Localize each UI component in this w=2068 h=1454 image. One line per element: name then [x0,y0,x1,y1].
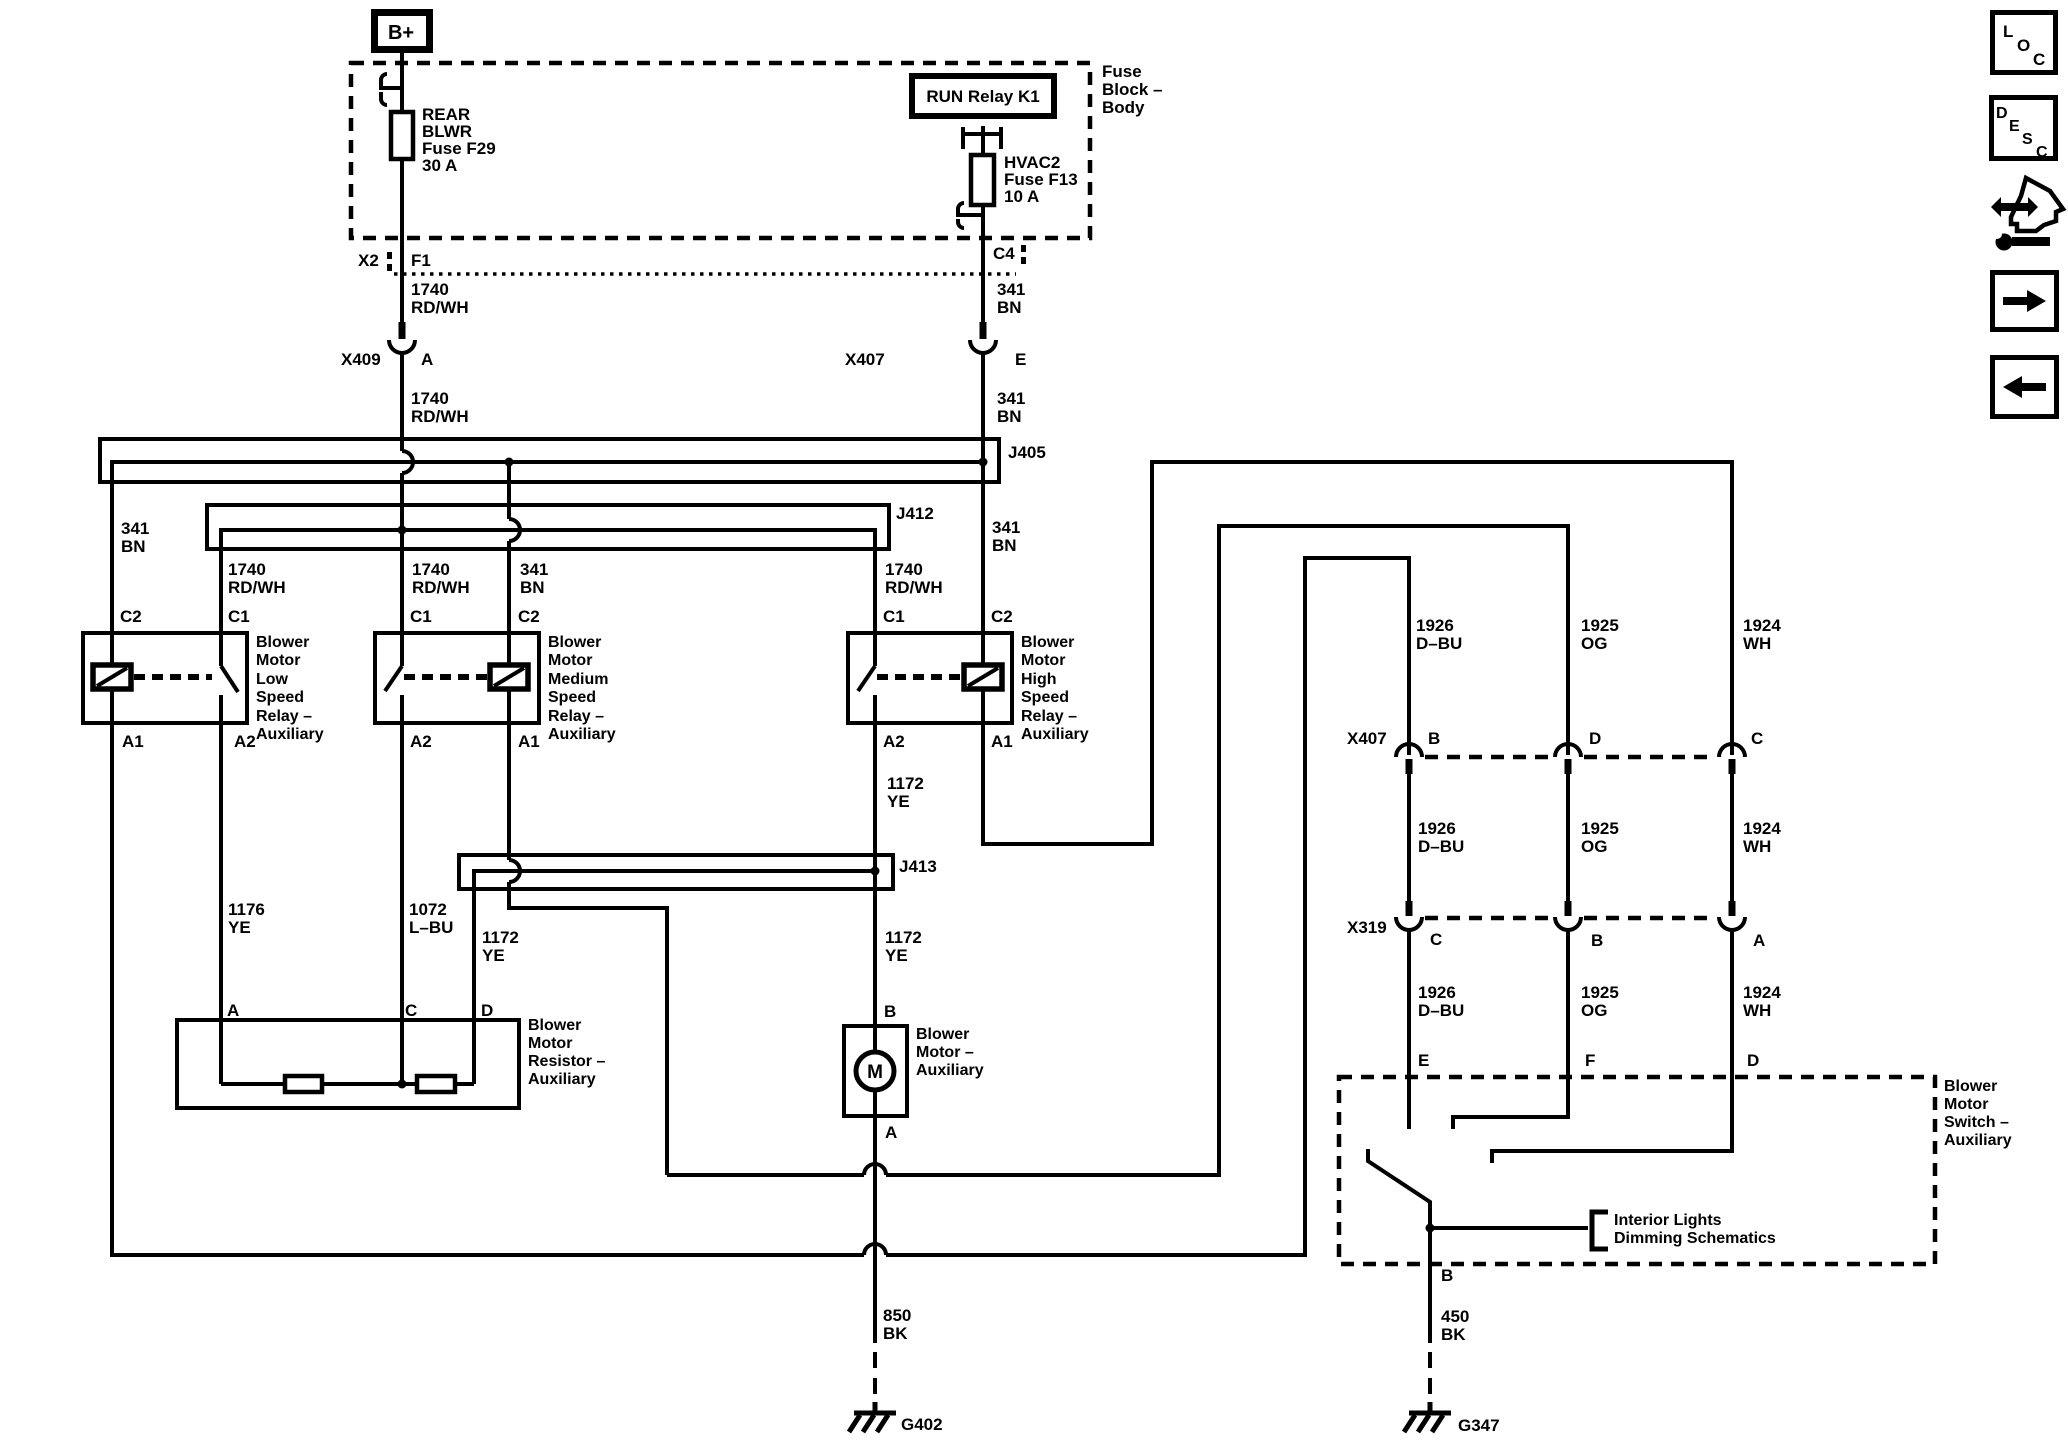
junction dot J412 at feed [398,526,407,535]
inline connector X319 C socket [1396,917,1422,930]
label 1740 RD/WH at high relay C1 [885,560,943,597]
svg-text:Blower: Blower [1944,1078,1997,1095]
ground G347 [1404,1402,1451,1432]
relay low speed contact blade [221,666,238,692]
wire high relay A1 to switch D via X407 C [983,462,1732,844]
svg-text:1924: 1924 [1743,819,1781,838]
icon LOC box [1993,13,2056,73]
relay high speed contact blade [858,666,875,691]
svg-text:A1: A1 [518,732,540,751]
svg-text:G402: G402 [901,1415,943,1434]
inline connector X319 C pin [1406,901,1413,916]
svg-text:341: 341 [997,280,1025,299]
svg-text:A1: A1 [122,732,144,751]
label 341 BN below X407 E [997,389,1025,426]
X2 separator dots [387,252,392,259]
relay medium speed coil [490,665,528,689]
svg-text:YE: YE [482,946,505,965]
label 1172 YE motor B feed [885,928,922,965]
svg-text:341: 341 [121,519,149,538]
inline connector X409 pin A [399,322,406,339]
inline connector X319 B pin [1565,901,1572,916]
X407 row dashed connector line [1425,755,1716,760]
svg-text:Blower: Blower [1021,634,1074,651]
inline connector X319 A pin [1729,901,1736,916]
svg-text:A: A [421,350,433,369]
fuse F29 body [391,112,413,159]
svg-text:B: B [1428,729,1440,748]
svg-text:WH: WH [1743,1001,1771,1020]
junction dot J413 at motor feed [871,867,880,876]
svg-text:1925: 1925 [1581,983,1619,1002]
wire B+ feed 1740 RD/WH down to X409 [400,53,404,322]
battery positive voltage B+ [375,13,430,50]
svg-text:E: E [1015,350,1026,369]
svg-text:D–BU: D–BU [1418,837,1464,856]
inline connector X407 C pin [1729,759,1736,774]
svg-text:Motor: Motor [528,1035,572,1052]
resistor element 1 [285,1076,322,1092]
svg-text:BK: BK [883,1324,908,1343]
inline connector X319 B socket [1555,917,1581,930]
wire tap to interior lights dimming [1430,1226,1588,1230]
svg-text:A: A [227,1001,239,1020]
svg-text:1072: 1072 [409,900,447,919]
svg-text:YE: YE [885,946,908,965]
labels relay high pins [883,607,1013,751]
svg-text:1740: 1740 [411,280,449,299]
svg-text:BN: BN [997,298,1022,317]
inline connector X407 C socket [1719,744,1745,757]
svg-text:J412: J412 [896,504,934,523]
label 1172 YE resistor D leg [482,928,519,965]
svg-text:Interior Lights: Interior Lights [1614,1212,1722,1229]
svg-text:1740: 1740 [412,560,450,579]
svg-text:10 A: 10 A [1004,187,1039,206]
J413 bus wire 1172 YE with leg to resistor D [474,871,875,1084]
icon arrow back box [1993,358,2057,417]
svg-text:341: 341 [520,560,548,579]
svg-text:Relay –: Relay – [256,708,312,725]
svg-text:1924: 1924 [1743,616,1781,635]
hop of 1740 wire over J405 bus [402,451,413,473]
J412 bus wire 1740 RD/WH with legs to low and high relay C1 [221,530,875,666]
svg-text:Motor: Motor [1944,1096,1988,1113]
svg-text:Relay –: Relay – [548,708,604,725]
fuse clip F29 [381,74,402,105]
svg-text:BN: BN [520,578,545,597]
fuse block - body dashed box [351,63,1090,238]
label Blower Motor Switch - Auxiliary [1944,1078,2012,1149]
svg-text:1926: 1926 [1418,983,1456,1002]
svg-text:C: C [405,1001,417,1020]
label 341 BN at medium relay C2 [520,560,548,597]
label 850 BK [883,1306,911,1343]
wire 341 BN HVAC2 fuse to X407 E [981,155,985,322]
svg-text:C: C [1751,729,1763,748]
label 341 BN above X407 E [997,280,1025,317]
labels 1926 D-BU / 1925 OG / 1924 WH between connectors [1418,819,1781,856]
junction dot at dimming tap [1426,1224,1435,1233]
splice J405 box [100,439,999,482]
svg-text:Auxiliary: Auxiliary [256,726,324,743]
svg-text:B: B [1441,1266,1453,1285]
svg-text:Auxiliary: Auxiliary [528,1071,596,1088]
svg-text:D: D [1589,729,1601,748]
labels 1926 D-BU / 1925 OG / 1924 WH below X319 [1418,983,1781,1020]
svg-text:C: C [1430,930,1442,949]
svg-text:S: S [2022,131,2033,148]
X319 row dashed connector line [1425,916,1716,921]
svg-text:Block –: Block – [1102,80,1162,99]
label Blower Motor Resistor - Auxiliary [528,1017,605,1088]
svg-text:A: A [885,1123,897,1142]
blower motor box [844,1026,907,1116]
svg-text:1926: 1926 [1416,616,1454,635]
svg-text:Auxiliary: Auxiliary [1021,726,1089,743]
relay medium speed A2 wire 1072 L-BU to resistor C [400,695,404,1084]
fuse clip F13 lower [958,203,983,228]
hop of low A1 return over motor wire [864,1244,886,1255]
svg-text:BN: BN [992,536,1017,555]
svg-text:Body: Body [1102,98,1145,117]
label 450 BK [1441,1307,1469,1344]
labels relay medium pins [410,607,540,751]
wire 341 BN from X407 E into J405 and down to high relay coil C2 [981,353,985,665]
relay medium speed contact blade [385,666,402,691]
svg-text:YE: YE [887,792,910,811]
wire low relay A1 to switch E via X407 B with hop [112,558,1409,1255]
label Blower Motor - Auxiliary [916,1026,984,1079]
svg-text:1925: 1925 [1581,819,1619,838]
svg-text:C2: C2 [518,607,540,626]
svg-text:Auxiliary: Auxiliary [548,726,616,743]
svg-text:F: F [1585,1051,1595,1070]
icon arrow forward box [1993,273,2057,330]
blower motor switch - auxiliary dashed box [1339,1077,1935,1264]
RUN relay output terminal bracket [963,126,1001,155]
svg-text:Motor: Motor [256,652,300,669]
label 341 BN left branch [121,519,149,556]
junction dot resistor C tap [398,1080,407,1089]
svg-text:L: L [2003,22,2013,41]
svg-text:RD/WH: RD/WH [411,407,469,426]
svg-text:A2: A2 [410,732,432,751]
svg-text:Dimming Schematics: Dimming Schematics [1614,1230,1776,1247]
inline connector X407 B pin [1406,759,1413,774]
label 1172 YE above J413 at high relay A2 [887,774,924,811]
svg-text:OG: OG [1581,837,1607,856]
svg-text:B+: B+ [388,22,414,44]
svg-text:C4: C4 [993,244,1015,263]
blower motor switch blade and common wire to pin B [1368,1149,1430,1343]
label 1740 RD/WH above X409 [411,280,469,317]
svg-text:1740: 1740 [411,389,449,408]
svg-text:D–BU: D–BU [1418,1001,1464,1020]
svg-text:Blower: Blower [916,1026,969,1043]
off-page bracket interior lights [1592,1212,1608,1249]
svg-text:C1: C1 [228,607,250,626]
svg-text:OG: OG [1581,634,1607,653]
inline connector X407 pin E [980,322,987,339]
connector boundary X2/F1 to C4 dotted line [394,272,1016,276]
label HVAC2 Fuse F13 10 A [1004,153,1078,206]
relay high speed coil-contact link [877,674,962,680]
relay high speed A2 wire 1172 YE to motor via J413 [873,695,877,1052]
svg-text:A2: A2 [234,732,256,751]
svg-text:WH: WH [1743,634,1771,653]
svg-text:BN: BN [121,537,146,556]
relay medium speed box [375,633,539,723]
svg-text:1926: 1926 [1418,819,1456,838]
C4 separator dots [1021,245,1026,252]
hop of medium A1 return over motor wire [864,1164,886,1175]
svg-text:1740: 1740 [228,560,266,579]
svg-text:M: M [867,1062,883,1083]
svg-text:Low: Low [256,671,289,688]
RUN Relay K1 box [912,76,1054,116]
svg-text:WH: WH [1743,837,1771,856]
svg-text:Medium: Medium [548,671,608,688]
svg-text:High: High [1021,671,1057,688]
wire 1926 D-BU X319 C to switch E [1407,930,1411,1129]
svg-text:C2: C2 [120,607,142,626]
label Blower Motor Low Speed Relay - Auxiliary [256,634,324,743]
label 1740 RD/WH at medium relay C1 [412,560,470,597]
svg-text:X319: X319 [1347,918,1387,937]
svg-text:OG: OG [1581,1001,1607,1020]
motor armature circle M [856,1052,894,1090]
svg-text:Auxiliary: Auxiliary [916,1062,984,1079]
svg-text:RUN Relay K1: RUN Relay K1 [926,87,1039,106]
svg-text:J405: J405 [1008,443,1046,462]
label REAR BLWR Fuse F29 30 A [422,105,496,175]
hop of medium A1 wire over J413 bus [509,860,520,882]
wire 1925 OG X407 D to X319 B [1566,774,1570,901]
wire 850 BK motor ground lead [873,1090,877,1343]
labels relay low pins [120,607,256,751]
svg-text:X2: X2 [358,251,379,270]
svg-text:G347: G347 [1458,1416,1500,1435]
svg-text:1172: 1172 [482,928,519,947]
svg-text:RD/WH: RD/WH [412,578,470,597]
fuse F13 body HVAC2 [971,155,994,205]
svg-text:D–BU: D–BU [1416,634,1462,653]
inline connector X407 E socket [970,340,996,353]
svg-text:F1: F1 [411,251,431,270]
svg-text:1925: 1925 [1581,616,1619,635]
svg-text:X409: X409 [341,350,381,369]
splice J413 box [459,855,893,889]
svg-text:Motor: Motor [1021,652,1065,669]
svg-text:Resistor –: Resistor – [528,1053,605,1070]
svg-text:341: 341 [992,518,1020,537]
relay low speed coil-contact link [134,674,212,680]
relay low speed coil [93,665,131,689]
junction dot J405 at medium coil feed [505,458,514,467]
icon DESC box [1992,98,2056,162]
svg-text:B: B [884,1002,896,1021]
svg-text:YE: YE [228,918,251,937]
relay high speed coil [964,665,1002,689]
labels resistor pins A C D [227,1001,493,1020]
label Interior Lights Dimming Schematics [1614,1212,1776,1247]
wire 341 BN medium coil feed with hop over J412 bus [507,462,511,665]
svg-text:1924: 1924 [1743,983,1781,1002]
inline connector X407 D pin [1565,759,1572,774]
relay high speed box [848,633,1012,723]
svg-text:C: C [2033,50,2045,69]
svg-text:341: 341 [997,389,1025,408]
svg-text:A2: A2 [883,732,905,751]
svg-text:BK: BK [1441,1325,1466,1344]
resistor internal wiring [221,1082,474,1086]
svg-text:E: E [1418,1051,1429,1070]
svg-text:C2: C2 [991,607,1013,626]
svg-text:Switch –: Switch – [1944,1114,2009,1131]
svg-text:X407: X407 [845,350,885,369]
svg-text:RD/WH: RD/WH [411,298,469,317]
svg-text:1172: 1172 [885,928,922,947]
svg-text:450: 450 [1441,1307,1469,1326]
inline connector X409 socket [389,340,415,353]
svg-text:Fuse: Fuse [1102,62,1142,81]
svg-text:J413: J413 [899,857,937,876]
J405 bus wire 341 BN [112,462,983,665]
svg-text:30 A: 30 A [422,156,457,175]
svg-text:BN: BN [997,407,1022,426]
svg-text:1740: 1740 [885,560,923,579]
svg-text:850: 850 [883,1306,911,1325]
label Fuse Block - Body [1102,62,1162,117]
svg-text:Speed: Speed [256,689,304,706]
label Blower Motor High Speed Relay - Auxiliary [1021,634,1089,743]
labels 1926 D-BU / 1925 OG / 1924 WH above X407 [1416,616,1781,653]
svg-text:1172: 1172 [887,774,924,793]
svg-text:C1: C1 [410,607,432,626]
label 341 BN right branch [992,518,1020,555]
wire 1924 WH X319 A to switch D [1492,930,1732,1163]
splice J412 box [207,505,889,549]
hop of 341 BN over J412 bus [509,519,520,541]
labels switch pins E F D [1418,1051,1759,1070]
inline connector X319 A socket [1719,917,1745,930]
svg-text:Blower: Blower [528,1017,581,1034]
label 1740 RD/WH at low relay C1 [228,560,286,597]
svg-text:D: D [1747,1051,1759,1070]
svg-text:O: O [2017,36,2030,55]
svg-text:X407: X407 [1347,729,1387,748]
svg-text:D: D [1996,105,2008,122]
inline connector X407 D socket [1555,744,1581,757]
svg-text:RD/WH: RD/WH [228,578,286,597]
svg-text:RD/WH: RD/WH [885,578,943,597]
relay low speed box [83,633,247,723]
svg-text:B: B [1591,931,1603,950]
icon jump arrows and wrench [1991,178,2063,251]
wire 1925 OG X319 B to switch F [1453,930,1568,1129]
dashed ground lead to G402 [873,1352,877,1404]
wire 1924 WH X407 C to X319 A [1730,774,1734,901]
dashed ground lead to G347 [1428,1352,1432,1404]
label 1176 YE [228,900,265,937]
svg-text:Speed: Speed [548,689,596,706]
svg-text:Blower: Blower [548,634,601,651]
svg-text:Relay –: Relay – [1021,708,1077,725]
svg-text:D: D [481,1001,493,1020]
inline connector X407 B socket [1396,744,1422,757]
wire medium relay A1 to switch F via X407 D with hops [509,526,1568,1175]
ground G402 [849,1402,896,1432]
svg-text:Blower: Blower [256,634,309,651]
svg-text:A1: A1 [991,732,1013,751]
svg-text:Motor: Motor [548,652,592,669]
relay medium speed coil-contact link [404,674,488,680]
svg-text:C1: C1 [883,607,905,626]
wire 1926 D-BU X407 B to X319 C [1407,774,1411,901]
wire 1740 RD/WH from X409 to J412 with hop over J405 bus [400,353,404,666]
resistor element 2 [417,1076,455,1092]
svg-text:C: C [2036,144,2048,161]
svg-text:Motor –: Motor – [916,1044,974,1061]
svg-text:L–BU: L–BU [409,918,453,937]
label 1072 L-BU [409,900,453,937]
svg-text:Auxiliary: Auxiliary [1944,1132,2012,1149]
svg-text:E: E [2009,118,2020,135]
blower motor resistor box [177,1020,519,1108]
junction dot J405 at high coil feed [979,458,988,467]
label 1740 RD/WH below X409 [411,389,469,426]
svg-text:A: A [1753,931,1765,950]
svg-text:1176: 1176 [228,900,265,919]
svg-text:Speed: Speed [1021,689,1069,706]
label Blower Motor Medium Speed Relay - Auxiliary [548,634,616,743]
relay low speed A2 wire 1176 YE to resistor A [219,695,223,1084]
